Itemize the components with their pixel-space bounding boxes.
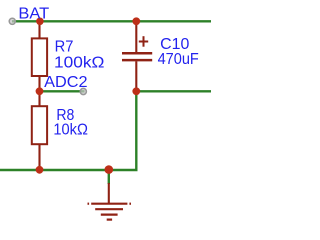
svg-text:R7: R7 bbox=[55, 39, 74, 56]
svg-text:470uF: 470uF bbox=[158, 51, 200, 68]
svg-text:10kΩ: 10kΩ bbox=[53, 122, 88, 139]
svg-text:BAT: BAT bbox=[18, 5, 49, 22]
svg-text:100kΩ: 100kΩ bbox=[54, 55, 105, 72]
svg-text:ADC2: ADC2 bbox=[44, 74, 87, 91]
